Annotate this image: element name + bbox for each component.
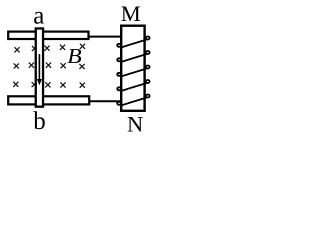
svg-text:M: M	[121, 1, 141, 26]
svg-text:B: B	[67, 44, 82, 67]
svg-text:b: b	[33, 108, 46, 135]
svg-text:a: a	[33, 3, 44, 30]
svg-text:N: N	[127, 111, 143, 136]
